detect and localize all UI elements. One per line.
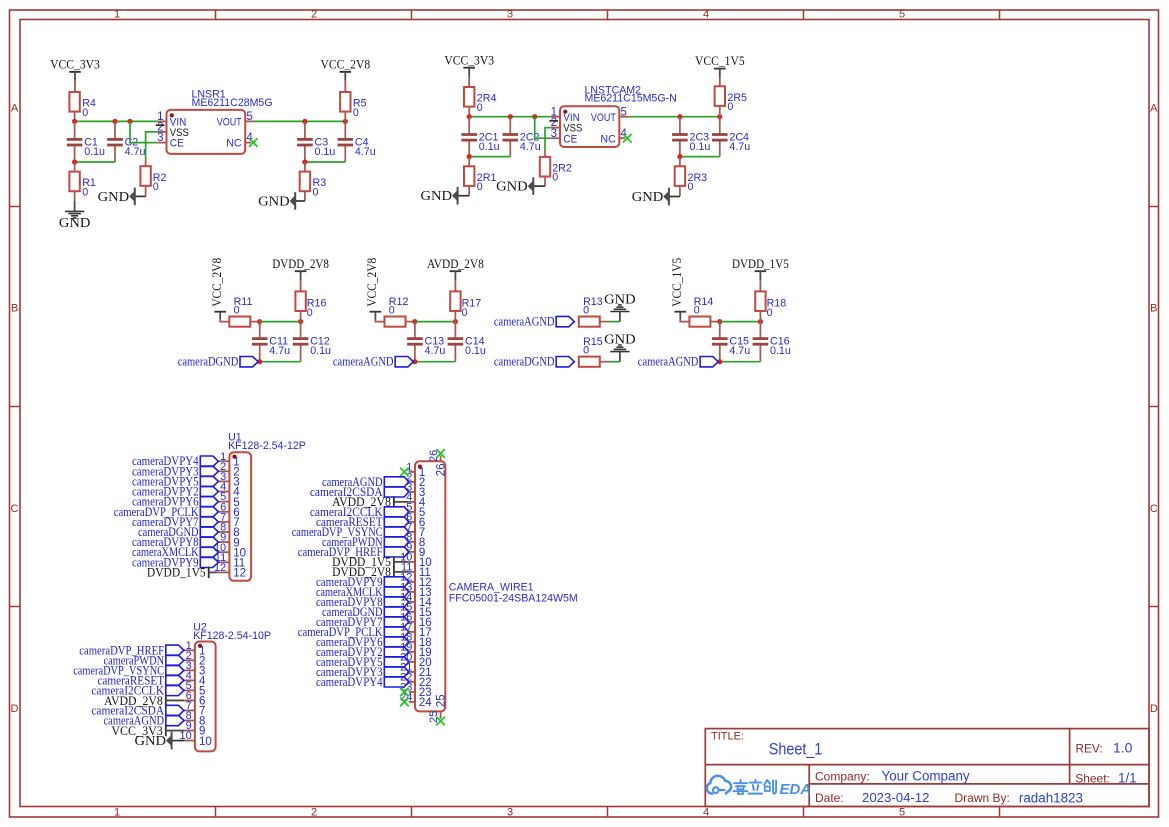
svg-text:GND: GND (604, 331, 636, 346)
net flag cameraRESET (97, 673, 183, 687)
net flag cameraDGND (322, 605, 409, 619)
svg-text:GND: GND (421, 188, 453, 203)
svg-text:cameraAGND: cameraAGND (494, 315, 555, 329)
svg-text:0: 0 (234, 305, 240, 317)
capacitor C13 (407, 322, 445, 362)
svg-text:0: 0 (389, 305, 395, 317)
node C2 tap (112, 119, 117, 124)
svg-text:CE: CE (563, 133, 577, 145)
svg-text:D: D (11, 703, 19, 715)
node R11/C11 (257, 319, 262, 324)
svg-text:VOUT: VOUT (217, 117, 242, 129)
svg-text:0: 0 (767, 307, 773, 319)
svg-text:0: 0 (462, 307, 468, 319)
ground (604, 331, 636, 361)
net flag cameraI2CCLK (310, 505, 409, 519)
svg-text:1.0: 1.0 (1113, 740, 1133, 756)
svg-text:0.1u: 0.1u (84, 146, 105, 158)
net flag cameraDVPY7 (316, 615, 409, 629)
wire R13 to ground (609, 321, 620, 323)
wire 2R1 to ground (458, 195, 470, 197)
net flag cameraDVPY2 (132, 485, 218, 499)
wire 2C1-2C2 bottom (469, 156, 510, 158)
wire R3 to ground (295, 200, 305, 202)
connector U2 KF128-2.54-10P (180, 621, 271, 751)
svg-text:4.7u: 4.7u (125, 146, 146, 158)
wire VSS to R2 (146, 132, 158, 159)
resistor R15 (579, 336, 609, 367)
regulator LNSR1 ME6211C28M5G (156, 89, 273, 154)
net flag cameraDVPY7 (132, 515, 218, 529)
svg-text:ME6211C28M5G: ME6211C28M5G (192, 97, 273, 109)
wire 2C3-2C4 bottom (680, 156, 720, 158)
svg-text:AVDD_2V8: AVDD_2V8 (104, 694, 163, 708)
node 2C3/2R3 (677, 154, 682, 159)
power flag VCC_2V8 (365, 258, 384, 322)
net flag cameraDVP_VSYNC (292, 525, 409, 539)
resistor R14 (689, 296, 719, 327)
svg-text:0: 0 (552, 172, 558, 184)
svg-text:VCC_2V8: VCC_2V8 (210, 258, 224, 307)
svg-text:Company:: Company: (815, 769, 870, 783)
net flag cameraDGND (138, 525, 218, 539)
svg-text:1/1: 1/1 (1118, 771, 1137, 786)
net flag cameraDVPY4 (316, 675, 409, 689)
svg-text:24: 24 (419, 697, 432, 709)
svg-text:GND: GND (135, 733, 167, 748)
svg-text:Date:: Date: (815, 791, 844, 805)
svg-text:VCC_3V3: VCC_3V3 (50, 58, 100, 72)
wire R2 to ground (135, 195, 146, 197)
svg-text:cameraAGND: cameraAGND (333, 355, 394, 369)
svg-text:0.1u: 0.1u (465, 345, 486, 357)
node 2C2 tap (508, 114, 513, 119)
ground (135, 732, 172, 750)
no-connect X (623, 134, 632, 143)
net flag cameraDGND (178, 355, 258, 369)
svg-text:0: 0 (583, 345, 589, 357)
svg-text:NC: NC (226, 138, 242, 150)
wire C11-C12 bottom (260, 361, 301, 363)
EasyEDA logo (707, 776, 812, 798)
wire CE to rail 2 (535, 117, 551, 139)
power flag AVDD_2V8 (332, 495, 409, 509)
svg-text:VOUT: VOUT (591, 112, 616, 124)
connector CAMERA_WIRE1 FFC05001-24SBA124W5M (400, 450, 578, 723)
ground (98, 188, 135, 206)
svg-text:C: C (1150, 503, 1158, 515)
svg-text:B: B (11, 303, 18, 315)
svg-text:AVDD_2V8: AVDD_2V8 (427, 257, 484, 271)
node CE tap 2 (532, 114, 537, 119)
ground (632, 188, 669, 206)
net flag cameraAGND (333, 355, 413, 369)
wire 2R3 to ground (669, 196, 680, 198)
svg-text:3: 3 (551, 128, 557, 140)
no-connect X (400, 698, 409, 707)
node VCC_3V3/R4/C1 (72, 119, 77, 124)
power flag VCC_3V3 (50, 58, 100, 93)
svg-text:4.7u: 4.7u (355, 146, 376, 158)
connector U1 KF128-2.54-12P (214, 431, 306, 581)
resistor R16 (295, 291, 326, 321)
node 2C1/2R1 (467, 154, 472, 159)
svg-text:3: 3 (157, 132, 163, 144)
svg-text:GND: GND (98, 189, 130, 204)
svg-text:VCC_2V8: VCC_2V8 (320, 58, 370, 72)
node VCC3V3/2R4/2C1 (467, 114, 472, 119)
svg-text:0: 0 (694, 305, 700, 317)
svg-text:0: 0 (313, 186, 319, 198)
capacitor 2C2 (503, 117, 541, 157)
net flag cameraDVPY6 (316, 635, 409, 649)
power flag DVDD_1V5 (147, 566, 217, 580)
net flag cameraI2CSDA (310, 485, 409, 499)
svg-text:4: 4 (703, 9, 709, 21)
capacitor C14 (448, 322, 486, 362)
svg-text:2: 2 (311, 807, 317, 819)
capacitor C11 (252, 322, 290, 362)
svg-text:VCC_1V5: VCC_1V5 (695, 54, 745, 68)
svg-text:A: A (11, 103, 19, 115)
ground (496, 177, 533, 195)
resistor R11 (229, 296, 259, 327)
svg-text:A: A (1150, 103, 1158, 115)
net flag cameraDVPY5 (316, 655, 409, 669)
net flag cameraXMCLK (132, 545, 218, 559)
node C1/R1 (72, 159, 77, 164)
svg-text:DVDD_2V8: DVDD_2V8 (272, 257, 329, 271)
resistor R1 (69, 162, 96, 201)
wire VIN rail 2 (469, 116, 550, 118)
resistor R4 (69, 92, 96, 121)
net flag cameraDVP_HREF (79, 643, 184, 657)
svg-text:25: 25 (436, 694, 448, 707)
svg-text:VCC_1V5: VCC_1V5 (670, 258, 684, 307)
net flag cameraRESET (316, 515, 409, 529)
power flag VCC_3V3 (111, 724, 184, 738)
no-connect X (249, 138, 258, 147)
svg-text:0: 0 (307, 307, 313, 319)
resistor 2R5 (715, 86, 747, 116)
svg-text:25: 25 (428, 711, 440, 723)
net flag cameraDVPY8 (132, 535, 218, 549)
svg-text:5: 5 (899, 9, 905, 21)
resistor R12 (385, 296, 415, 327)
svg-text:0: 0 (477, 102, 483, 114)
net flag cameraI2CCLK (91, 683, 184, 697)
svg-text:D: D (1150, 703, 1158, 715)
resistor 2R4 (464, 87, 496, 117)
svg-text:3: 3 (507, 9, 513, 21)
power flag VCC_1V5 (695, 54, 745, 86)
svg-text:Sheet_1: Sheet_1 (769, 740, 823, 758)
wire C13-C14 bottom (415, 361, 456, 363)
svg-text:3: 3 (507, 807, 513, 819)
wire VIN rail (75, 120, 158, 122)
wire R15 to ground (609, 361, 620, 363)
wire C1-C2 bottom (75, 161, 115, 163)
resistor 2R3 (675, 157, 707, 197)
resistor 2R2 (540, 150, 572, 186)
no-connect X (400, 688, 409, 697)
svg-text:0: 0 (353, 107, 359, 119)
power flag DVDD_2V8 (332, 565, 409, 579)
svg-text:KF128-2.54-12P: KF128-2.54-12P (228, 440, 306, 452)
power flag DVDD_1V5 (732, 257, 789, 292)
net flag cameraDGND (494, 355, 574, 369)
wire C15-C16 bottom (720, 361, 761, 363)
svg-text:REV:: REV: (1076, 741, 1103, 755)
svg-text:5: 5 (621, 106, 627, 118)
wire VOUT rail 2 (629, 116, 720, 118)
net flag cameraDVPY8 (316, 595, 409, 609)
svg-text:ME6211C15M5G-N: ME6211C15M5G-N (585, 93, 677, 105)
net flag cameraAGND (494, 315, 574, 329)
net flag cameraPWDN (104, 653, 184, 667)
node C13/flag (412, 359, 417, 364)
capacitor 2C3 (672, 117, 710, 157)
svg-text:2: 2 (311, 9, 317, 21)
capacitor C12 (293, 322, 331, 362)
no-connect X (436, 449, 445, 458)
svg-text:cameraAGND: cameraAGND (638, 355, 699, 369)
node R14/C15 (717, 319, 722, 324)
node CE tap (127, 119, 132, 124)
resistor R2 (140, 159, 166, 196)
svg-text:0.1u: 0.1u (310, 345, 331, 357)
net flag cameraAGND (638, 355, 718, 369)
node C11/flag (257, 359, 262, 364)
net flag cameraDVPY3 (316, 665, 409, 679)
svg-text:4.7u: 4.7u (729, 141, 750, 153)
ground (421, 187, 458, 205)
node 2C4/2R5 (717, 114, 722, 119)
svg-text:NC: NC (600, 133, 616, 145)
net flag cameraI2CSDA (91, 703, 184, 717)
svg-text:0: 0 (82, 186, 88, 198)
power flag VCC_2V8 (210, 258, 229, 322)
net flag cameraDVPY6 (132, 495, 218, 509)
svg-text:0: 0 (153, 181, 159, 193)
wire CE to rail (130, 121, 157, 142)
resistor 2R1 (464, 157, 496, 196)
wire R12 to R17 (415, 321, 456, 323)
node C4/R5 (343, 119, 348, 124)
node 2C3 tap (677, 114, 682, 119)
power flag AVDD_2V8 (427, 257, 484, 292)
node C3/R3 (302, 159, 307, 164)
node R12/C13 (412, 319, 417, 324)
svg-text:Drawn By:: Drawn By: (955, 791, 1010, 805)
svg-text:cameraDGND: cameraDGND (494, 355, 555, 369)
svg-text:DVDD_1V5: DVDD_1V5 (732, 257, 789, 271)
svg-text:2023-04-12: 2023-04-12 (862, 790, 929, 805)
net flag cameraDVPY3 (132, 464, 218, 478)
svg-text:10: 10 (199, 736, 212, 748)
svg-text:4.7u: 4.7u (520, 141, 541, 153)
net flag cameraDVP_PCLK (298, 625, 409, 639)
power flag AVDD_2V8 (104, 694, 184, 708)
net flag cameraAGND (104, 714, 184, 728)
resistor R18 (755, 291, 786, 321)
svg-text:VCC_2V8: VCC_2V8 (365, 258, 379, 307)
power flag DVDD_2V8 (272, 257, 329, 292)
ground (59, 201, 91, 230)
net flag cameraXMCLK (316, 585, 409, 599)
svg-text:4.7u: 4.7u (729, 345, 750, 357)
svg-text:radah1823: radah1823 (1019, 791, 1083, 806)
svg-text:4: 4 (703, 807, 709, 819)
power flag VCC_3V3 (444, 53, 494, 87)
capacitor C4 (338, 121, 376, 162)
net flag cameraDVP_VSYNC (73, 663, 184, 677)
svg-text:KF128-2.54-10P: KF128-2.54-10P (193, 630, 271, 642)
capacitor 2C1 (461, 117, 499, 157)
power flag DVDD_1V5 (332, 555, 409, 569)
capacitor C15 (712, 322, 750, 362)
svg-text:EDA: EDA (780, 781, 812, 798)
svg-text:0.1u: 0.1u (770, 345, 791, 357)
capacitor C1 (67, 121, 105, 162)
svg-text:0.1u: 0.1u (479, 141, 500, 153)
svg-text:VCC_3V3: VCC_3V3 (444, 53, 494, 67)
node C15/flag (717, 359, 722, 364)
node R18/C16 (758, 319, 763, 324)
wire U2 pin10 to ground (172, 740, 184, 742)
svg-text:0: 0 (477, 181, 483, 193)
svg-text:GND: GND (59, 215, 91, 230)
svg-text:DVDD_1V5: DVDD_1V5 (147, 566, 206, 580)
svg-text:GND: GND (632, 189, 664, 204)
wire R11 to R16 (260, 321, 301, 323)
capacitor C3 (297, 121, 335, 162)
net flag cameraAGND (322, 475, 409, 489)
node R17/C14 (453, 319, 458, 324)
wire C3-C4 bottom (305, 161, 345, 163)
svg-text:4.7u: 4.7u (425, 345, 446, 357)
svg-text:GND: GND (258, 193, 290, 208)
net flag cameraPWDN (322, 535, 409, 549)
svg-text:cameraDGND: cameraDGND (178, 355, 239, 369)
power flag VCC_2V8 (320, 58, 370, 93)
svg-text:1: 1 (114, 9, 120, 21)
svg-text:0: 0 (688, 181, 694, 193)
svg-text:B: B (1150, 303, 1157, 315)
capacitor C2 (107, 121, 145, 162)
wire 2R2 to ground (533, 185, 545, 187)
svg-text:0: 0 (583, 305, 589, 317)
svg-text:C: C (11, 503, 19, 515)
capacitor 2C4 (712, 117, 750, 157)
svg-text:0.1u: 0.1u (690, 141, 711, 153)
regulator LNSTCAM2 ME6211C15M5G-N (549, 84, 676, 147)
net flag cameraDVPY2 (316, 645, 409, 659)
resistor R5 (340, 92, 367, 121)
power flag VCC_1V5 (670, 258, 689, 322)
net flag cameraDVPY4 (132, 454, 218, 468)
svg-text:5: 5 (899, 807, 905, 819)
capacitor C16 (753, 322, 791, 362)
net flag cameraDVP_HREF (298, 545, 409, 559)
ground (604, 291, 636, 321)
svg-text:5: 5 (246, 111, 252, 123)
svg-text:0: 0 (82, 107, 88, 119)
svg-text:GND: GND (604, 291, 636, 306)
ground (258, 192, 295, 210)
svg-text:Your Company: Your Company (882, 768, 970, 783)
wire R14 to R18 (720, 321, 761, 323)
node C3 tap (302, 119, 307, 124)
wire VSS to 2R2 (545, 128, 551, 151)
resistor R13 (579, 296, 609, 327)
svg-text:CE: CE (170, 138, 184, 150)
svg-text:cameraDVPY4: cameraDVPY4 (316, 675, 383, 689)
no-connect X (436, 717, 445, 726)
net flag cameraDVPY5 (132, 474, 218, 488)
resistor R3 (300, 162, 327, 201)
svg-text:0.1u: 0.1u (315, 146, 336, 158)
svg-text:GND: GND (496, 179, 528, 194)
svg-text:1: 1 (114, 807, 120, 819)
net flag cameraDVP_PCLK (114, 505, 219, 519)
svg-text:FFC05001-24SBA124W5M: FFC05001-24SBA124W5M (449, 592, 578, 604)
svg-text:4.7u: 4.7u (269, 345, 290, 357)
wire VOUT rail (255, 120, 345, 122)
svg-text:12: 12 (233, 568, 246, 580)
svg-text:Sheet:: Sheet: (1075, 772, 1110, 786)
net flag cameraDVPY9 (316, 575, 409, 589)
svg-text:26: 26 (436, 463, 448, 476)
svg-text:0: 0 (727, 101, 733, 113)
net flag cameraDVPY9 (132, 555, 218, 569)
title block (705, 729, 1149, 807)
resistor R17 (450, 291, 481, 321)
no-connect X (400, 468, 409, 477)
node R16/C12 (298, 319, 303, 324)
svg-text:TITLE:: TITLE: (711, 730, 744, 742)
